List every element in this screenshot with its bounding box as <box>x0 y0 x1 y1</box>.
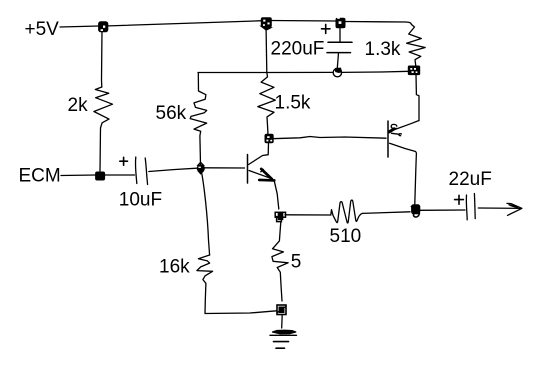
svg-text:1.3k: 1.3k <box>365 39 401 60</box>
svg-text:16k: 16k <box>159 256 190 277</box>
svg-text:56k: 56k <box>156 103 187 124</box>
svg-text:5: 5 <box>291 252 302 273</box>
svg-text:ECM: ECM <box>19 166 61 187</box>
svg-text:1.5k: 1.5k <box>275 93 311 114</box>
svg-text:22uF: 22uF <box>449 169 492 190</box>
svg-text:510: 510 <box>330 226 362 247</box>
svg-text:+5V: +5V <box>25 19 60 40</box>
svg-text:220uF: 220uF <box>271 39 325 60</box>
svg-text:2k: 2k <box>68 95 89 116</box>
svg-text:10uF: 10uF <box>119 190 162 211</box>
